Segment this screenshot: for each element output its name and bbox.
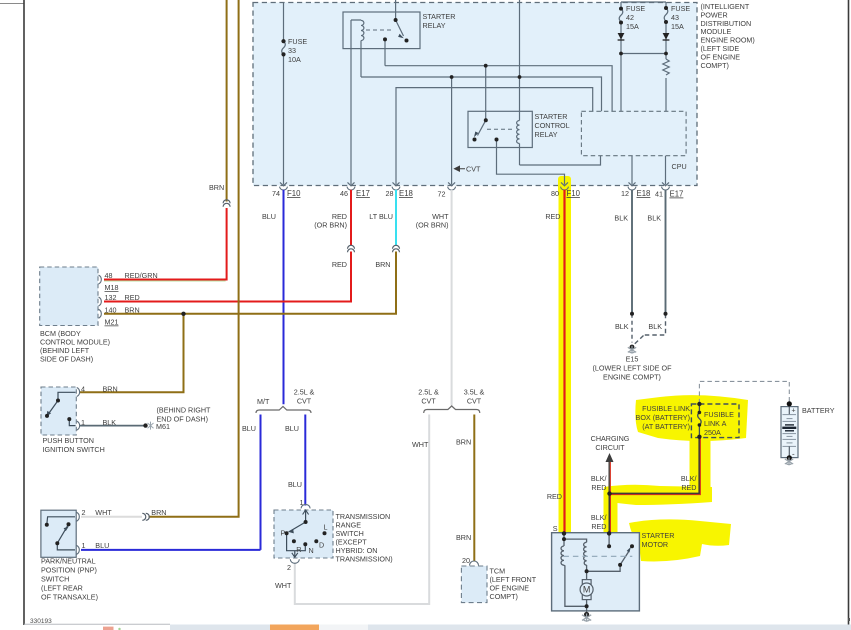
- svg-text:BLU: BLU: [242, 424, 256, 433]
- svg-text:RED: RED: [545, 212, 560, 221]
- svg-text:OF TRANSAXLE): OF TRANSAXLE): [41, 593, 98, 602]
- svg-text:4: 4: [81, 385, 85, 394]
- svg-text:WHT: WHT: [275, 581, 292, 590]
- svg-text:BLK: BLK: [103, 418, 117, 427]
- svg-text:WHT: WHT: [412, 440, 429, 449]
- svg-text:LINK A: LINK A: [704, 419, 727, 428]
- svg-text:10A: 10A: [288, 55, 301, 64]
- svg-text:RED/GRN: RED/GRN: [125, 271, 158, 280]
- svg-text:FUSE: FUSE: [671, 4, 690, 13]
- svg-text:BRN: BRN: [456, 438, 471, 447]
- svg-text:BOX (BATTERY): BOX (BATTERY): [636, 413, 690, 422]
- svg-text:43: 43: [671, 13, 679, 22]
- svg-text:R: R: [296, 545, 301, 554]
- svg-text:WHT: WHT: [95, 508, 112, 517]
- svg-text:15A: 15A: [626, 22, 639, 31]
- svg-text:CVT: CVT: [421, 397, 436, 406]
- svg-text:RED: RED: [125, 293, 140, 302]
- svg-text:(OR BRN): (OR BRN): [314, 221, 347, 230]
- svg-text:N: N: [309, 546, 314, 555]
- svg-text:CVT: CVT: [467, 397, 482, 406]
- svg-text:CHARGING: CHARGING: [591, 434, 630, 443]
- svg-text:48: 48: [105, 271, 113, 280]
- svg-text:1: 1: [81, 418, 85, 427]
- svg-text:RED: RED: [591, 483, 606, 492]
- svg-text:RED: RED: [332, 260, 347, 269]
- svg-text:E17: E17: [670, 190, 684, 199]
- svg-text:2.5L &: 2.5L &: [418, 388, 439, 397]
- svg-text:F10: F10: [287, 189, 301, 198]
- svg-text:BRN: BRN: [209, 183, 224, 192]
- svg-text:RED: RED: [681, 483, 696, 492]
- svg-text:CPU: CPU: [672, 162, 687, 171]
- svg-text:BATTERY: BATTERY: [802, 406, 835, 415]
- svg-text:D: D: [319, 541, 324, 550]
- svg-text:12: 12: [621, 189, 629, 198]
- svg-text:M/T: M/T: [257, 397, 270, 406]
- svg-text:(OR BRN): (OR BRN): [416, 221, 449, 230]
- svg-text:S: S: [553, 524, 558, 533]
- svg-text:M18: M18: [105, 283, 119, 292]
- svg-text:E18: E18: [399, 189, 413, 198]
- svg-text:TRANSMISSION): TRANSMISSION): [336, 555, 393, 564]
- svg-text:SWITCH: SWITCH: [41, 575, 69, 584]
- svg-text:20: 20: [462, 556, 470, 565]
- svg-text:80: 80: [551, 189, 559, 198]
- svg-text:M: M: [583, 584, 591, 594]
- svg-text:SIDE OF DASH): SIDE OF DASH): [40, 355, 93, 364]
- svg-text:BRN: BRN: [103, 385, 118, 394]
- svg-text:+: +: [792, 408, 796, 415]
- svg-text:FUSE: FUSE: [626, 4, 645, 13]
- svg-text:STARTER: STARTER: [642, 531, 675, 540]
- svg-text:BLU: BLU: [262, 212, 276, 221]
- svg-text:CONTROL: CONTROL: [535, 121, 570, 130]
- svg-text:RED: RED: [547, 492, 562, 501]
- svg-text:1: 1: [82, 541, 86, 550]
- svg-text:E18: E18: [637, 189, 651, 198]
- svg-text:BRN: BRN: [456, 533, 471, 542]
- svg-text:CVT: CVT: [297, 397, 312, 406]
- svg-text:CIRCUIT: CIRCUIT: [595, 443, 625, 452]
- svg-text:CVT: CVT: [466, 165, 481, 174]
- svg-text:LT BLU: LT BLU: [369, 212, 393, 221]
- svg-text:E17: E17: [356, 189, 370, 198]
- svg-text:PUSH BUTTON: PUSH BUTTON: [43, 436, 94, 445]
- svg-text:P: P: [281, 528, 286, 537]
- svg-text:L: L: [324, 522, 328, 531]
- svg-text:41: 41: [655, 190, 663, 199]
- svg-text:33: 33: [288, 46, 296, 55]
- svg-text:MOTOR: MOTOR: [642, 540, 669, 549]
- svg-text:E15: E15: [626, 355, 639, 364]
- svg-text:RELAY: RELAY: [535, 130, 558, 139]
- svg-text:140: 140: [105, 305, 117, 314]
- svg-text:250A: 250A: [704, 428, 721, 437]
- svg-text:15A: 15A: [671, 22, 684, 31]
- svg-text:F10: F10: [567, 189, 581, 198]
- svg-text:COMPT): COMPT): [490, 592, 518, 601]
- svg-text:(BEHIND RIGHT: (BEHIND RIGHT: [157, 405, 212, 414]
- svg-text:M61: M61: [156, 422, 170, 431]
- svg-text:RED: RED: [591, 522, 606, 531]
- svg-text:IGNITION SWITCH: IGNITION SWITCH: [43, 445, 105, 454]
- svg-text:M21: M21: [105, 318, 119, 327]
- svg-text:74: 74: [272, 189, 280, 198]
- svg-text:POSITION (PNP): POSITION (PNP): [41, 566, 97, 575]
- svg-text:BRN: BRN: [375, 260, 390, 269]
- svg-text:(AT BATTERY): (AT BATTERY): [642, 422, 690, 431]
- svg-text:46: 46: [340, 189, 348, 198]
- svg-text:ENGINE COMPT): ENGINE COMPT): [603, 373, 661, 382]
- svg-text:RELAY: RELAY: [423, 21, 446, 30]
- svg-text:-: -: [792, 450, 795, 459]
- svg-text:FUSIBLE LINK: FUSIBLE LINK: [642, 404, 690, 413]
- svg-text:132: 132: [105, 293, 117, 302]
- svg-text:BLK/: BLK/: [591, 474, 607, 483]
- svg-text:STARTER: STARTER: [423, 12, 456, 21]
- svg-text:2: 2: [287, 563, 291, 572]
- svg-text:FUSE: FUSE: [288, 37, 307, 46]
- svg-text:COMPT): COMPT): [701, 61, 729, 70]
- svg-text:2: 2: [82, 508, 86, 517]
- svg-text:BRN: BRN: [151, 508, 166, 517]
- svg-text:28: 28: [386, 189, 394, 198]
- svg-text:42: 42: [626, 13, 634, 22]
- svg-text:BRN: BRN: [125, 305, 140, 314]
- svg-text:72: 72: [438, 190, 446, 199]
- svg-text:(LEFT REAR: (LEFT REAR: [41, 584, 83, 593]
- svg-text:PARK/NEUTRAL: PARK/NEUTRAL: [41, 557, 96, 566]
- svg-text:330193: 330193: [30, 618, 52, 625]
- svg-text:(LOWER LEFT SIDE OF: (LOWER LEFT SIDE OF: [593, 364, 673, 373]
- svg-text:BLK: BLK: [647, 214, 661, 223]
- svg-text:FUSIBLE: FUSIBLE: [704, 410, 734, 419]
- svg-text:BLU: BLU: [288, 480, 302, 489]
- svg-text:BLK: BLK: [615, 322, 629, 331]
- svg-text:2.5L &: 2.5L &: [294, 388, 315, 397]
- svg-text:BLK/: BLK/: [681, 474, 697, 483]
- svg-text:STARTER: STARTER: [535, 112, 568, 121]
- svg-text:1: 1: [300, 498, 304, 507]
- svg-text:BLK/: BLK/: [591, 513, 607, 522]
- svg-text:BLK: BLK: [648, 322, 662, 331]
- svg-text:3.5L &: 3.5L &: [464, 388, 485, 397]
- svg-text:BLK: BLK: [614, 214, 628, 223]
- svg-text:BLU: BLU: [285, 424, 299, 433]
- svg-text:BLU: BLU: [95, 541, 109, 550]
